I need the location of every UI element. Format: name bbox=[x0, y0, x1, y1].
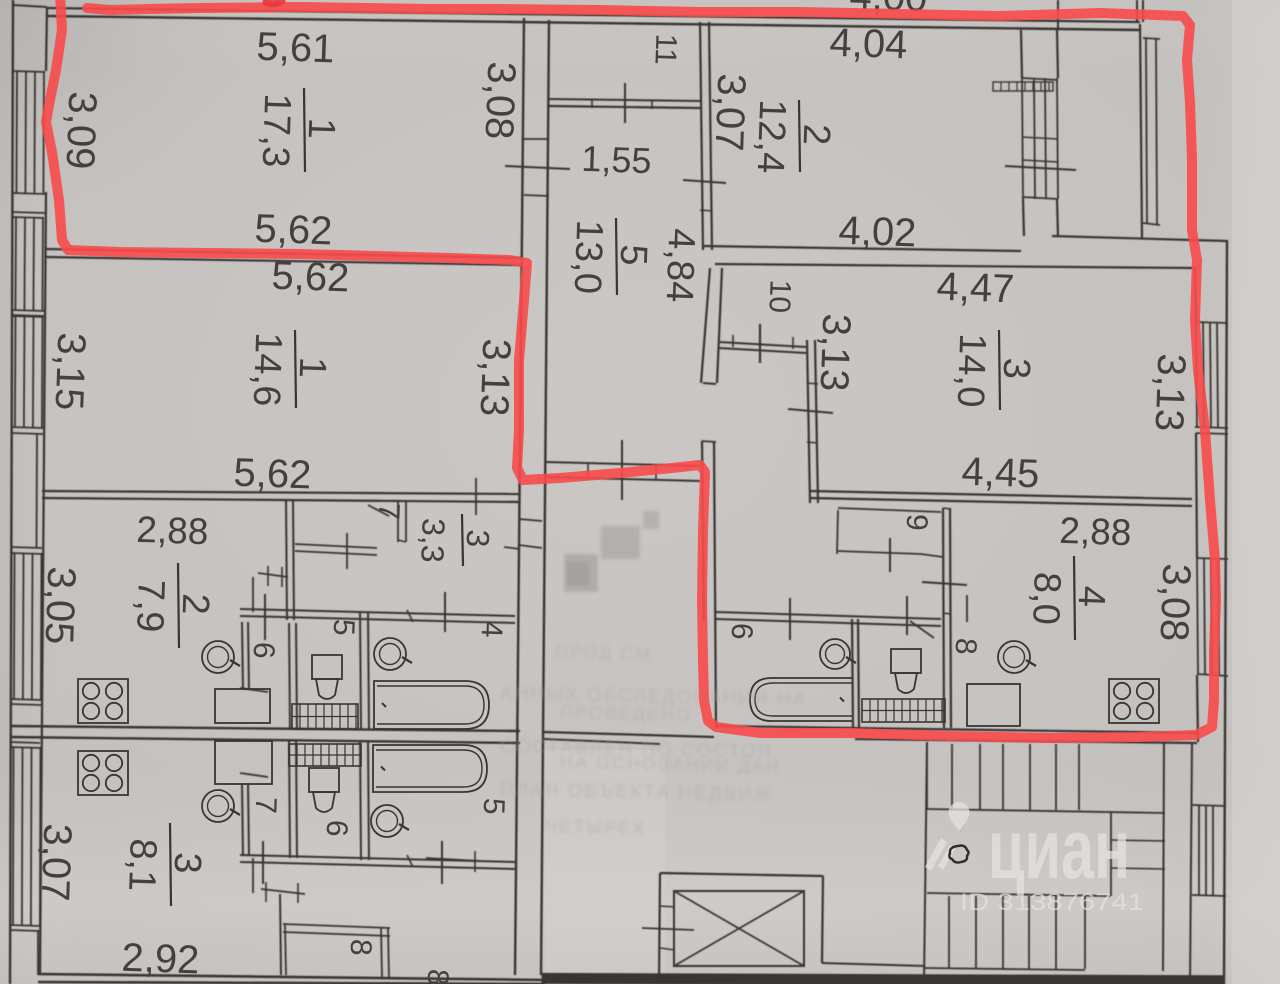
svg-text:7,9: 7,9 bbox=[128, 579, 172, 633]
wc5 west wall line1 bbox=[289, 623, 290, 730]
wc door swing bbox=[910, 621, 934, 638]
closet3.3 south line1 bbox=[295, 544, 377, 548]
elevator X diag 1 bbox=[674, 891, 804, 966]
svg-text:3,3: 3,3 bbox=[414, 518, 452, 564]
corridor1.55 north wall lower bbox=[549, 106, 700, 108]
hall10 west wall line2 bbox=[717, 268, 722, 383]
storage8 east wall line2 bbox=[388, 928, 389, 977]
room label 3/14,0 bbox=[949, 330, 1038, 410]
svg-text:8: 8 bbox=[421, 968, 455, 984]
room14.6 south wall upper bbox=[42, 491, 519, 494]
hall9 west wall bbox=[837, 510, 838, 554]
left facade window 3 bbox=[14, 316, 17, 427]
right facade inner wall seg3 bbox=[1197, 675, 1198, 742]
corridor1.55 north wall upper bbox=[549, 99, 700, 101]
tick on 14.6 south wall bbox=[475, 478, 477, 515]
small wall piece bbox=[258, 573, 288, 577]
elevator shaft top wall bbox=[660, 873, 823, 876]
ll bath south wall upper bbox=[240, 855, 515, 862]
stove kitchen right bbox=[1109, 679, 1159, 723]
closet divider line2 bbox=[405, 500, 407, 542]
ghost print lines bbox=[500, 642, 808, 838]
top wall lower line bbox=[47, 16, 1140, 30]
right facade window room3 bbox=[1196, 322, 1197, 428]
bath west wall bbox=[714, 441, 716, 728]
svg-text:4,47: 4,47 bbox=[936, 265, 1015, 312]
svg-text:3: 3 bbox=[460, 529, 497, 548]
small vert wall bbox=[252, 577, 254, 612]
bathtub right bbox=[750, 678, 852, 721]
svg-text:3,13: 3,13 bbox=[1147, 353, 1194, 432]
floor hatch right bbox=[862, 699, 945, 722]
room label 1/17,3 bbox=[254, 88, 343, 172]
svg-text:4: 4 bbox=[475, 620, 509, 638]
right wc door tick bbox=[906, 596, 908, 635]
svg-text:3,09: 3,09 bbox=[58, 91, 105, 170]
watermark zigzag mark bbox=[925, 838, 947, 871]
shaft bottom line bbox=[822, 963, 925, 966]
room4 door tick bbox=[922, 582, 967, 585]
room label 4/8,0 bbox=[1024, 556, 1112, 640]
room3 door tick bbox=[788, 409, 833, 413]
storage8 north line1 bbox=[283, 924, 390, 928]
red marker outline of apartments bbox=[46, 0, 1216, 738]
pier inner line low bbox=[37, 930, 39, 975]
svg-text:2: 2 bbox=[795, 123, 838, 146]
elevator X diag 2 bbox=[674, 891, 804, 966]
kitchen right counter bbox=[967, 684, 1020, 726]
censor blur blocks bbox=[564, 511, 659, 592]
svg-text:8: 8 bbox=[344, 938, 378, 956]
room2 east wall lower seg line2 bbox=[1057, 199, 1058, 236]
left facade pier lines bbox=[12, 212, 45, 213]
stove kitchen 8,1 bbox=[78, 751, 128, 795]
sink kitchen right bbox=[998, 641, 1036, 673]
svg-text:ЧЕТЫРЕХ: ЧЕТЫРЕХ bbox=[545, 816, 646, 838]
room label 2/12,4 bbox=[749, 99, 838, 174]
svg-text:4,02: 4,02 bbox=[838, 209, 917, 256]
corridor13 south wall lower bbox=[546, 477, 700, 481]
svg-text:циан: циан bbox=[988, 802, 1130, 896]
connector bbox=[587, 463, 589, 479]
wc/bath divider line2 bbox=[368, 612, 369, 730]
room3 south wall upper bbox=[810, 491, 1192, 499]
door tick corridor13 south bbox=[621, 440, 623, 500]
svg-text:3,05: 3,05 bbox=[37, 566, 84, 645]
balcony side wall upper bbox=[1057, 0, 1059, 28]
left facade window 4 bbox=[13, 553, 16, 699]
svg-text:11: 11 bbox=[648, 33, 682, 65]
ll wc/bath divider line1 bbox=[360, 740, 361, 860]
mid wall lobby lower bbox=[544, 739, 660, 744]
svg-text:2,88: 2,88 bbox=[1059, 510, 1132, 553]
room3 west wall line1 bbox=[807, 340, 810, 503]
ll small wall piece bbox=[261, 889, 305, 894]
lower stub west line bbox=[702, 441, 704, 620]
left facade window 1 bbox=[15, 71, 18, 193]
ll wc/bath divider line2 bbox=[368, 740, 369, 860]
half step 2 bbox=[1111, 868, 1165, 869]
hall step line bbox=[240, 688, 268, 692]
svg-text:7: 7 bbox=[372, 502, 406, 520]
corridor13 south wall upper bbox=[546, 462, 700, 466]
stair flight lower treads bbox=[948, 896, 950, 969]
corridor wall connectors / door jambs bbox=[524, 138, 549, 140]
sink bath right bbox=[820, 639, 856, 669]
right facade window stairwell bbox=[1198, 806, 1200, 896]
svg-text:ПРОД СМ: ПРОД СМ bbox=[555, 642, 653, 664]
room2 east window band bbox=[1022, 78, 1023, 199]
floor hatch wc lower bbox=[289, 744, 361, 766]
right facade window room4 bbox=[1197, 558, 1198, 675]
ul inner wall a bbox=[286, 499, 287, 620]
room label 5/13,0 bbox=[566, 218, 655, 295]
toilet wc5 upper bbox=[312, 655, 342, 699]
stairwell east wall bbox=[1163, 742, 1164, 971]
toilet wc lower bbox=[309, 768, 339, 812]
right bath north wall upper bbox=[716, 612, 941, 619]
room2 west wall line1 bbox=[700, 22, 703, 250]
room label 1/14,6 bbox=[245, 330, 334, 408]
ll wc west wall line2 bbox=[296, 740, 297, 858]
watermark cian bbox=[925, 802, 1144, 916]
lower flight bottom line bbox=[925, 968, 1085, 970]
kitchen/hall divider line1 bbox=[242, 622, 243, 689]
hall9 north line bbox=[838, 508, 941, 512]
svg-text:5,62: 5,62 bbox=[233, 451, 312, 498]
svg-text:1: 1 bbox=[300, 117, 343, 140]
watermark pin bbox=[949, 802, 970, 831]
door tick corridor1.55 bbox=[624, 83, 626, 123]
tick on room2 west wall bbox=[683, 180, 726, 183]
ul inner wall b bbox=[293, 499, 294, 620]
ll bath door tick right bbox=[441, 841, 443, 884]
svg-text:2,92: 2,92 bbox=[121, 936, 200, 983]
wall under balcony bbox=[1052, 236, 1227, 241]
room2 south wall lower / room3 north bbox=[715, 264, 1193, 268]
interior left wall bbox=[40, 192, 46, 975]
top right stub line2 bbox=[1142, 0, 1144, 22]
bottom dark band right bbox=[542, 973, 1225, 984]
storage8 west wall bbox=[285, 924, 286, 975]
svg-text:4: 4 bbox=[1070, 585, 1113, 608]
lower stub cap bbox=[702, 441, 716, 442]
lower flight right boundary bbox=[1084, 896, 1086, 969]
wc5 west wall line2 bbox=[296, 623, 297, 730]
stove kitchen 7,9 bbox=[78, 679, 128, 723]
svg-text:ID 313876741: ID 313876741 bbox=[960, 889, 1144, 916]
small tick near storage 8 bbox=[966, 595, 968, 622]
svg-text:6: 6 bbox=[320, 819, 354, 837]
room1 south wall lower bbox=[46, 257, 523, 265]
ul bath north wall lower bbox=[240, 616, 515, 623]
svg-text:7: 7 bbox=[249, 796, 283, 814]
svg-text:13,0: 13,0 bbox=[566, 219, 611, 294]
ll small vert wall bbox=[252, 858, 254, 893]
room2 west wall line2 bbox=[709, 22, 712, 250]
elevator shaft east wall bbox=[822, 876, 823, 963]
elevator door tick 1 bbox=[660, 906, 675, 907]
svg-text:3,13: 3,13 bbox=[812, 313, 859, 392]
mid wall lobby upper bbox=[544, 732, 714, 737]
kitchen 7,9 counter bbox=[215, 689, 270, 723]
bath/wc divider line2 bbox=[858, 619, 859, 728]
sink bath upper bbox=[374, 638, 412, 670]
corridor west wall bbox=[515, 18, 524, 975]
balcony rail line1 bbox=[1146, 38, 1147, 224]
svg-text:1,55: 1,55 bbox=[581, 138, 652, 181]
elevator shaft west wall bbox=[659, 873, 660, 984]
kitchen 8,1 counter bbox=[215, 741, 272, 784]
elevator door tick 2 bbox=[660, 948, 675, 950]
room1 left wall top piece bbox=[46, 7, 47, 71]
bath/wc divider line1 bbox=[852, 619, 853, 728]
room3 west wall line2 bbox=[815, 340, 818, 503]
mid landing bottom line bbox=[927, 893, 1110, 896]
closet divider line1 bbox=[397, 500, 399, 542]
svg-text:3,15: 3,15 bbox=[47, 332, 94, 411]
ll hall wall vert bbox=[280, 894, 281, 975]
svg-text:8: 8 bbox=[949, 637, 983, 655]
bath south wall (under red) bbox=[716, 726, 1197, 733]
hall10 west wall line1 bbox=[701, 268, 710, 383]
svg-text:5: 5 bbox=[612, 244, 655, 267]
half step 1 bbox=[1111, 840, 1165, 841]
ul bath door tick left bbox=[264, 594, 266, 640]
top wall upper line bbox=[47, 8, 1140, 22]
stair flight upper treads bbox=[926, 744, 928, 810]
floor hatch wc5 upper bbox=[292, 704, 358, 729]
room label 2/7,9 bbox=[128, 563, 216, 648]
sink bath lower bbox=[371, 805, 409, 837]
room label 3/3,3 bbox=[414, 514, 496, 566]
left facade window 2 bbox=[14, 217, 17, 310]
top right stub line1 bbox=[1136, 0, 1138, 22]
right facade inner low bbox=[1190, 742, 1192, 984]
bottom wall upper line bbox=[38, 974, 545, 980]
half flight left boundary bbox=[1110, 813, 1112, 896]
hall10 wall lower bbox=[719, 348, 806, 353]
ll bath south wall lower bbox=[240, 862, 515, 869]
svg-text:4,84: 4,84 bbox=[658, 228, 703, 303]
svg-text:2: 2 bbox=[174, 593, 217, 616]
sink kitchen 7,9 bbox=[202, 641, 240, 673]
ll hall step line bbox=[240, 773, 268, 777]
bottom wall lower line bbox=[38, 982, 545, 984]
sink kitchen 8,1 bbox=[202, 790, 240, 822]
tick line right bbox=[426, 858, 480, 861]
svg-text:6: 6 bbox=[725, 622, 759, 640]
tick on room2 east window bbox=[1005, 166, 1076, 170]
corridor east wall bbox=[541, 20, 549, 975]
svg-text:ПРОВЕДЕНО: ПРОВЕДЕНО bbox=[560, 702, 692, 725]
ll kitchen/hall divider line1 bbox=[242, 784, 243, 855]
svg-text:3,07: 3,07 bbox=[33, 823, 80, 902]
balcony rail line2 bbox=[1156, 38, 1157, 224]
bathtub upper left bbox=[374, 681, 489, 729]
svg-text:8,1: 8,1 bbox=[120, 838, 164, 892]
svg-text:6: 6 bbox=[247, 641, 281, 659]
pier inner line bbox=[36, 433, 39, 548]
room3 south wall lower bbox=[810, 498, 1192, 506]
svg-text:9: 9 bbox=[900, 513, 934, 531]
svg-text:5: 5 bbox=[327, 618, 361, 636]
svg-text:3,08: 3,08 bbox=[477, 61, 524, 140]
toilet right bbox=[891, 649, 921, 693]
wc/bath divider line1 bbox=[360, 612, 361, 730]
ll wc west wall line1 bbox=[289, 740, 290, 858]
svg-text:3,07: 3,07 bbox=[707, 73, 754, 152]
room label 3/8,1 bbox=[120, 823, 208, 906]
svg-text:1: 1 bbox=[291, 356, 334, 379]
svg-text:5,62: 5,62 bbox=[254, 207, 333, 254]
svg-text:14,0: 14,0 bbox=[949, 333, 994, 408]
hall9 door tick bbox=[889, 538, 891, 572]
svg-text:12,4: 12,4 bbox=[749, 99, 794, 174]
bathtub lower left bbox=[373, 745, 487, 792]
svg-text:8,0: 8,0 bbox=[1024, 571, 1068, 625]
ul bath north wall upper bbox=[240, 609, 515, 616]
mid wall lower left bbox=[10, 737, 520, 743]
mid landing top line bbox=[927, 809, 1165, 813]
ll kitchen/hall divider line2 bbox=[248, 784, 249, 855]
svg-text:2,88: 2,88 bbox=[136, 509, 209, 552]
hall10 west wall cap bbox=[703, 383, 716, 384]
red squiggle top bbox=[266, 1, 282, 4]
svg-text:5,62: 5,62 bbox=[271, 254, 350, 301]
left facade outer wall bbox=[10, 0, 13, 984]
room1 south wall upper bbox=[46, 249, 523, 258]
svg-text:4,04: 4,04 bbox=[829, 21, 908, 68]
svg-text:3: 3 bbox=[995, 357, 1038, 380]
balcony window sill hatch bbox=[993, 82, 1053, 91]
elevator door cross tick bbox=[642, 928, 694, 930]
top-left wall cap bbox=[13, 5, 47, 7]
hand drawn circle on landing bbox=[949, 846, 968, 863]
right bath door tick bbox=[789, 598, 791, 640]
hall9 south line bbox=[837, 551, 921, 554]
closet3.3 south line2 bbox=[295, 551, 377, 555]
room14.6 south wall lower bbox=[42, 498, 519, 502]
hall10 door tick bbox=[759, 324, 761, 363]
elevator car bbox=[674, 891, 804, 966]
ll bath door tick left bbox=[262, 841, 264, 884]
storage8 east wall line1 bbox=[381, 928, 382, 977]
room2 far east wall bbox=[1140, 24, 1142, 238]
balcony rail top cap bbox=[1143, 38, 1160, 39]
room2 east wall upper seg line1 bbox=[1021, 30, 1022, 78]
storage8 north line2 bbox=[283, 932, 390, 936]
svg-text:14,6: 14,6 bbox=[245, 332, 290, 407]
ul bath door tick right bbox=[444, 592, 446, 632]
svg-text:17,3: 17,3 bbox=[254, 93, 299, 168]
right bath north wall lower bbox=[716, 619, 941, 626]
right facade inner wall seg1 bbox=[1195, 267, 1196, 322]
svg-text:5,61: 5,61 bbox=[256, 25, 335, 72]
svg-text:4,45: 4,45 bbox=[961, 450, 1040, 497]
left facade window 5 bbox=[12, 747, 15, 925]
stair left boundary bbox=[924, 742, 927, 984]
svg-text:3,08: 3,08 bbox=[1152, 563, 1199, 642]
right facade inner wall seg2 bbox=[1196, 433, 1197, 558]
kitchen/hall divider line2 bbox=[248, 622, 249, 689]
svg-text:3: 3 bbox=[166, 852, 209, 875]
room4 west wall line2 bbox=[950, 508, 951, 728]
mid wall upper left bbox=[10, 726, 520, 731]
hall10 wall upper bbox=[719, 342, 806, 347]
svg-text:10: 10 bbox=[762, 279, 796, 314]
room2 east wall upper seg line2 bbox=[1057, 30, 1058, 78]
right facade outer wall bbox=[1224, 240, 1227, 984]
room2 east wall lower seg line1 bbox=[1023, 199, 1024, 236]
balcony rail bottom cap bbox=[1143, 223, 1160, 225]
room4 west wall line1 bbox=[943, 508, 944, 728]
connector bbox=[655, 464, 657, 480]
stairwell north wall bbox=[855, 739, 1197, 743]
tick closet bbox=[346, 533, 348, 569]
room2 south wall upper bbox=[703, 246, 1021, 251]
closet door swing bbox=[368, 505, 389, 516]
svg-text:3,13: 3,13 bbox=[472, 338, 519, 417]
